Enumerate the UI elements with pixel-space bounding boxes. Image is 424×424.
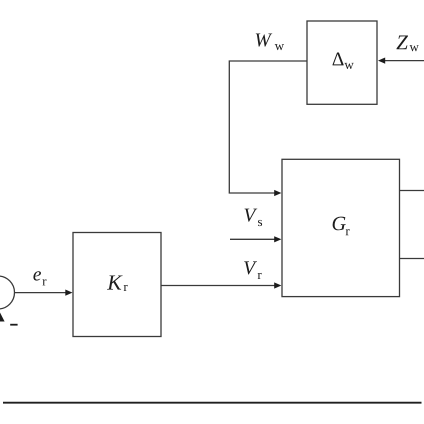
- block Delta_w: [307, 21, 377, 104]
- wire V_s input to G_r: [230, 238, 275, 240]
- label K_r: [107, 275, 128, 291]
- wire V_r: K_r output to G_r: [161, 285, 275, 287]
- wire e_r: summing junction to K_r: [15, 292, 67, 294]
- block G_r: [282, 159, 400, 296]
- arrowhead W_w into G_r: [274, 190, 281, 196]
- wire W_w: Delta_w output down into G_r: [229, 61, 307, 193]
- label W_w: [256, 34, 284, 51]
- wire G_r lower output: [400, 258, 424, 260]
- block K_r: [73, 233, 161, 337]
- minus sign at summing junction: [10, 324, 17, 326]
- arrowhead Z_w into Delta_w: [378, 58, 385, 64]
- label Z_w: [396, 35, 418, 51]
- label G_r: [333, 217, 350, 236]
- arrowhead feedback into summing junction: [0, 311, 5, 322]
- arrowhead V_r into G_r: [274, 282, 281, 288]
- wire Z_w input to Delta_w: [385, 60, 424, 62]
- summing junction S1: [0, 276, 15, 309]
- arrowhead into K_r: [65, 290, 72, 296]
- wire G_r upper output: [400, 190, 424, 192]
- arrowhead V_s into G_r: [274, 236, 281, 242]
- label e_r: [33, 271, 46, 285]
- label V_s: [245, 209, 263, 227]
- label V_r: [244, 261, 261, 279]
- label Delta_w: [333, 53, 354, 70]
- caption rule (bottom separator line): [3, 402, 422, 404]
